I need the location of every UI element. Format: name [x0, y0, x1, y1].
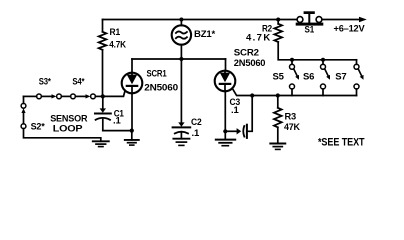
wire SCR2 cathode down: [224, 91, 226, 131]
buzzer BZ1: [180, 20, 182, 26]
wire top rail right segment: [322, 19, 360, 21]
resistor R3: [276, 93, 280, 97]
ground C2: [173, 138, 189, 140]
node junction dot gate R1 C1: [101, 94, 105, 98]
node junction dot SCR1 cathode ground: [130, 129, 134, 133]
svg-text:2N5060: 2N5060: [144, 82, 178, 93]
switch S7: [356, 60, 358, 65]
capacitor C3: [225, 130, 237, 132]
svg-text:S4*: S4*: [72, 76, 84, 87]
wire C1 bottom to SCR1 cathode: [103, 130, 132, 132]
thyristor SCR2: [225, 59, 227, 71]
svg-text:BZ1*: BZ1*: [194, 29, 215, 40]
svg-text:R3: R3: [285, 111, 297, 122]
wire SCR2 gate: [232, 88, 356, 95]
ground sensor loop: [93, 140, 109, 142]
svg-text:S2*: S2*: [31, 122, 45, 133]
switch S6: [321, 58, 325, 62]
svg-text:2N5060: 2N5060: [234, 58, 265, 69]
node junction dot R2 top: [276, 18, 280, 22]
svg-text:S6: S6: [303, 72, 314, 83]
node junction dot BZ1 top: [179, 18, 183, 22]
capacitor C2: [178, 122, 184, 126]
svg-text:4.7K: 4.7K: [109, 40, 126, 51]
switch S4: [71, 94, 76, 99]
capacitor C1: [102, 96, 104, 109]
node junction dot BZ1 bottom: [179, 57, 183, 61]
wire top rail left segment: [103, 19, 298, 21]
wire S2 to ground: [24, 129, 101, 142]
resistor R2: [277, 20, 279, 24]
node top rail arrow to +6-12V: [359, 17, 367, 23]
resistor R1: [102, 20, 104, 32]
wire anode rail SCR1-BZ1-SCR2: [132, 58, 226, 60]
switch S3: [37, 94, 42, 99]
svg-text:.1: .1: [192, 128, 200, 139]
sensor loop wires: [24, 95, 37, 97]
ground SCR2: [224, 131, 226, 139]
node junction dot C3 gate: [250, 93, 254, 97]
svg-text:.1: .1: [231, 105, 239, 116]
svg-text:+6–12V: +6–12V: [334, 24, 366, 35]
svg-text:S3*: S3*: [39, 76, 51, 87]
node junction dot SCR2 cathode ground: [223, 129, 227, 133]
svg-text:47K: 47K: [284, 122, 300, 133]
svg-text:4.7K: 4.7K: [246, 33, 270, 44]
ground SCR1 C1: [131, 131, 133, 140]
svg-text:LOOP: LOOP: [53, 123, 83, 134]
svg-text:*SEE TEXT: *SEE TEXT: [318, 136, 365, 148]
svg-text:R1: R1: [110, 27, 121, 38]
svg-text:S1: S1: [305, 24, 315, 35]
svg-text:C2: C2: [191, 117, 202, 128]
svg-text:SCR1: SCR1: [147, 69, 168, 80]
thyristor SCR1: [131, 59, 133, 73]
svg-text:S5: S5: [273, 72, 285, 83]
switch S2: [21, 103, 26, 108]
pushbutton S1: [297, 17, 303, 23]
wire SCR1 cathode down: [131, 93, 133, 130]
switch S5: [290, 58, 294, 62]
svg-text:S7: S7: [335, 72, 346, 83]
svg-text:SCR2: SCR2: [234, 47, 259, 58]
ground R3: [270, 143, 285, 145]
wire SCR1 gate: [103, 90, 125, 96]
svg-text:.1: .1: [113, 115, 121, 126]
